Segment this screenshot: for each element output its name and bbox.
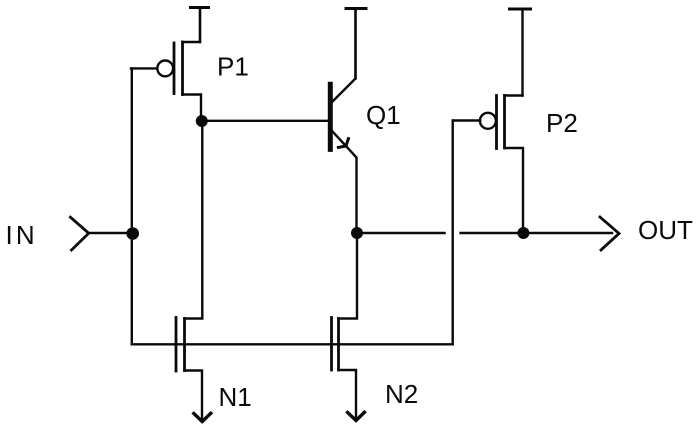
wire IN gate riser (node down to N-gate rail, up to P1 gate): [131, 68, 133, 344]
power stub VDD (above P2): [510, 9, 531, 96]
output arrow: [600, 217, 619, 250]
transistor Q1 (NPN): [330, 9, 356, 234]
input arrow: [70, 217, 88, 250]
node OUT junction: [517, 227, 529, 239]
svg-text:P1: P1: [217, 51, 249, 81]
node Q1 emitter junction: [351, 227, 363, 239]
current-source arrow N2: [348, 412, 365, 420]
node P1 drain junction: [196, 115, 208, 127]
wire main horizontal (after crossover to OUT arrow): [461, 232, 613, 234]
wire N-gate rail: [132, 343, 453, 345]
svg-text:OUT: OUT: [638, 215, 693, 245]
svg-text:P2: P2: [546, 108, 578, 138]
node IN junction: [126, 227, 139, 240]
current-source arrow N1: [194, 413, 211, 421]
wire main horizontal (Q1 emitter node to crossover gap): [357, 232, 445, 234]
svg-text:IN: IN: [6, 220, 38, 250]
transistor N2 (NMOS): [332, 233, 358, 418]
transistor P2 (PMOS): [453, 96, 523, 234]
power stub VDD (above P1): [191, 8, 209, 43]
svg-text:N1: N1: [219, 382, 252, 412]
wire IN horizontal to node: [89, 232, 133, 234]
power stub VDD (above Q1): [346, 9, 366, 79]
transistor N1 (NMOS): [176, 121, 202, 419]
svg-text:N2: N2: [385, 379, 418, 409]
wire base of Q1: [203, 120, 329, 122]
transistor P1 (PMOS): [131, 8, 201, 122]
wire P2 gate riser: [452, 121, 454, 345]
svg-text:Q1: Q1: [366, 100, 401, 130]
